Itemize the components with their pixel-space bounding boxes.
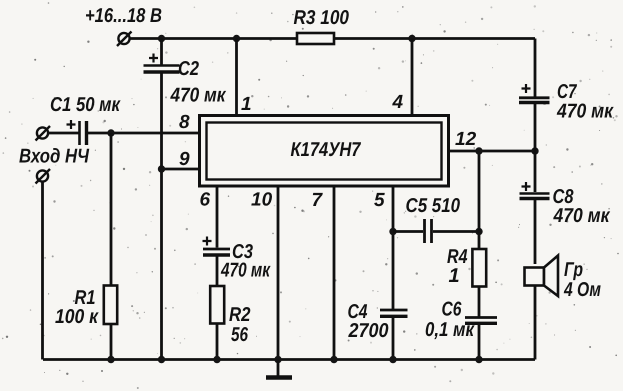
node junction C5 / R4 [475, 228, 482, 235]
svg-text:6: 6 [200, 190, 211, 211]
node junction bottom rail / R2 [213, 356, 220, 363]
svg-text:12: 12 [455, 129, 477, 150]
svg-text:4 Ом: 4 Ом [563, 279, 601, 301]
svg-text:8: 8 [179, 112, 190, 133]
node junction pin12 / right rail [531, 147, 538, 154]
speaker Гр [525, 256, 559, 297]
node junction top rail / pin 4 [408, 35, 415, 42]
wire pin 7 [333, 186, 336, 360]
capacitor C5 [425, 219, 432, 243]
svg-text:Вход НЧ: Вход НЧ [19, 146, 90, 168]
terminal +16...18 V input [117, 32, 132, 47]
op-amp IC U1 К174УН7 outer box [200, 116, 449, 187]
svg-text:0,1 мк: 0,1 мк [425, 319, 475, 341]
svg-text:1: 1 [449, 265, 460, 287]
terminal input ground [36, 169, 51, 184]
node junction bottom rail / R1 [107, 356, 114, 363]
wire C1 to pin 8 [88, 132, 199, 135]
wire C2 branch upper [160, 39, 163, 66]
node junction bottom rail / C2 line [158, 356, 165, 363]
wire C5 left [393, 230, 423, 233]
op-amp IC U1 inner box [207, 123, 442, 180]
wire pin 10 [277, 186, 280, 360]
node junction top rail / C2 [158, 35, 165, 42]
wire R1 branch [110, 133, 113, 360]
svg-text:9: 9 [179, 149, 190, 170]
node junction bottom rail / C4 [389, 356, 396, 363]
capacitor C3 [203, 237, 231, 256]
svg-text:10: 10 [251, 190, 273, 211]
wire top supply rail [129, 37, 535, 40]
svg-text:+16...18 В: +16...18 В [85, 5, 162, 27]
svg-text:C6: C6 [442, 299, 463, 321]
node junction bottom rail / pin 10 [274, 356, 281, 363]
svg-text:100 к: 100 к [55, 306, 99, 328]
wire pin 4 [411, 39, 414, 117]
capacitor C2 [144, 54, 180, 73]
node junction C2 line / pin 9 [158, 165, 165, 172]
resistor R1 [104, 286, 117, 325]
svg-text:R2: R2 [229, 304, 251, 326]
svg-text:C5 510: C5 510 [406, 195, 461, 217]
wire pin 6 lower [216, 324, 219, 360]
svg-text:4: 4 [392, 92, 404, 113]
wire speaker to bottom rail [534, 286, 537, 360]
resistor R4 [472, 249, 486, 287]
svg-text:Гр: Гр [564, 259, 583, 281]
node junction bottom rail / pin 7 [330, 356, 337, 363]
node junction pin5 / C5 [389, 228, 396, 235]
svg-text:К174УН7: К174УН7 [291, 139, 362, 161]
svg-text:56: 56 [231, 324, 249, 346]
svg-text:C1 50 мк: C1 50 мк [50, 94, 121, 116]
wire right rail top [534, 39, 537, 97]
wire pin 6 upper [216, 186, 219, 248]
terminal input signal [36, 126, 51, 141]
wire C2 branch lower down to ground rail [160, 74, 163, 360]
wire pin 5 lower [392, 317, 395, 360]
wire right rail C7 to pin12 [534, 104, 537, 192]
wire input ground down to bottom rail [41, 182, 44, 360]
wire pin 1 [235, 39, 238, 117]
wire C6 to bottom rail [478, 324, 481, 360]
wire pin 5 upper [392, 186, 395, 309]
svg-text:470 мк: 470 мк [220, 260, 270, 282]
wire pin 6 middle [216, 257, 219, 287]
resistor R3 [297, 33, 334, 44]
svg-text:7: 7 [312, 190, 324, 211]
wire C5 right [433, 230, 479, 233]
resistor R2 [210, 286, 224, 324]
svg-text:R3 100: R3 100 [294, 7, 350, 29]
capacitor C6 [465, 318, 497, 324]
svg-text:470 мк: 470 мк [553, 205, 611, 227]
svg-text:C2: C2 [178, 58, 199, 80]
node junction top rail / pin 1 [233, 35, 240, 42]
node junction pin12 / R4 branch [475, 147, 482, 154]
node junction bottom rail / C6 [475, 356, 482, 363]
node junction C1 / R1 [107, 129, 114, 136]
capacitor C4 [380, 310, 408, 316]
svg-text:5: 5 [374, 190, 385, 211]
svg-text:470 мк: 470 мк [556, 101, 614, 123]
wire R4 to C6 [478, 287, 481, 318]
capacitor C7 [519, 84, 550, 103]
wire pin12 branch down [478, 151, 481, 249]
wire pin 9 [162, 168, 199, 171]
wire bottom ground rail [43, 358, 535, 361]
wire right rail C8 to speaker [534, 200, 537, 264]
wire pin 12 [449, 150, 536, 153]
wire input to C1 [48, 132, 78, 135]
svg-text:470 мк: 470 мк [170, 85, 227, 107]
svg-text:2700: 2700 [348, 320, 389, 342]
capacitor C1 [67, 120, 87, 145]
capacitor C8 [520, 182, 550, 199]
ground [266, 360, 292, 378]
svg-text:1: 1 [241, 94, 252, 115]
